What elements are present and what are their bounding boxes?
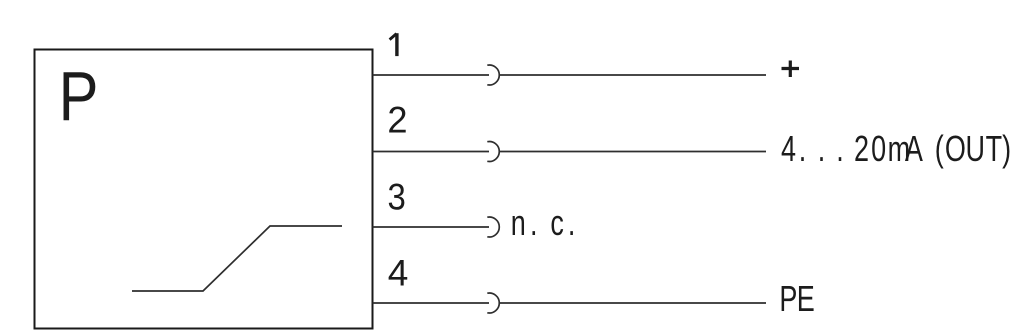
wire pin 1 right — [500, 74, 766, 76]
svg-text:P: P — [59, 57, 99, 136]
connector arc pin 4 — [487, 293, 499, 313]
ramp signal symbol — [132, 226, 342, 291]
connector arc pin 3 — [487, 217, 499, 237]
wire pin 4 right — [500, 302, 766, 304]
wire pin 2 right — [500, 151, 766, 153]
wire pin 4 left — [373, 302, 490, 304]
pin 1 label — [390, 33, 397, 56]
wire pin 1 left — [373, 74, 490, 76]
svg-text:3: 3 — [388, 177, 406, 218]
connector arc pin 2 — [487, 142, 499, 162]
connector arc pin 1 — [487, 65, 499, 85]
transmitter box U1 — [35, 50, 373, 329]
svg-text:2: 2 — [387, 99, 407, 140]
node + : plus sign — [782, 67, 800, 70]
wire pin 2 left — [373, 151, 490, 153]
svg-text:4: 4 — [388, 253, 409, 294]
wire pin 3 left — [373, 226, 490, 228]
svg-text:PE: PE — [779, 278, 814, 319]
